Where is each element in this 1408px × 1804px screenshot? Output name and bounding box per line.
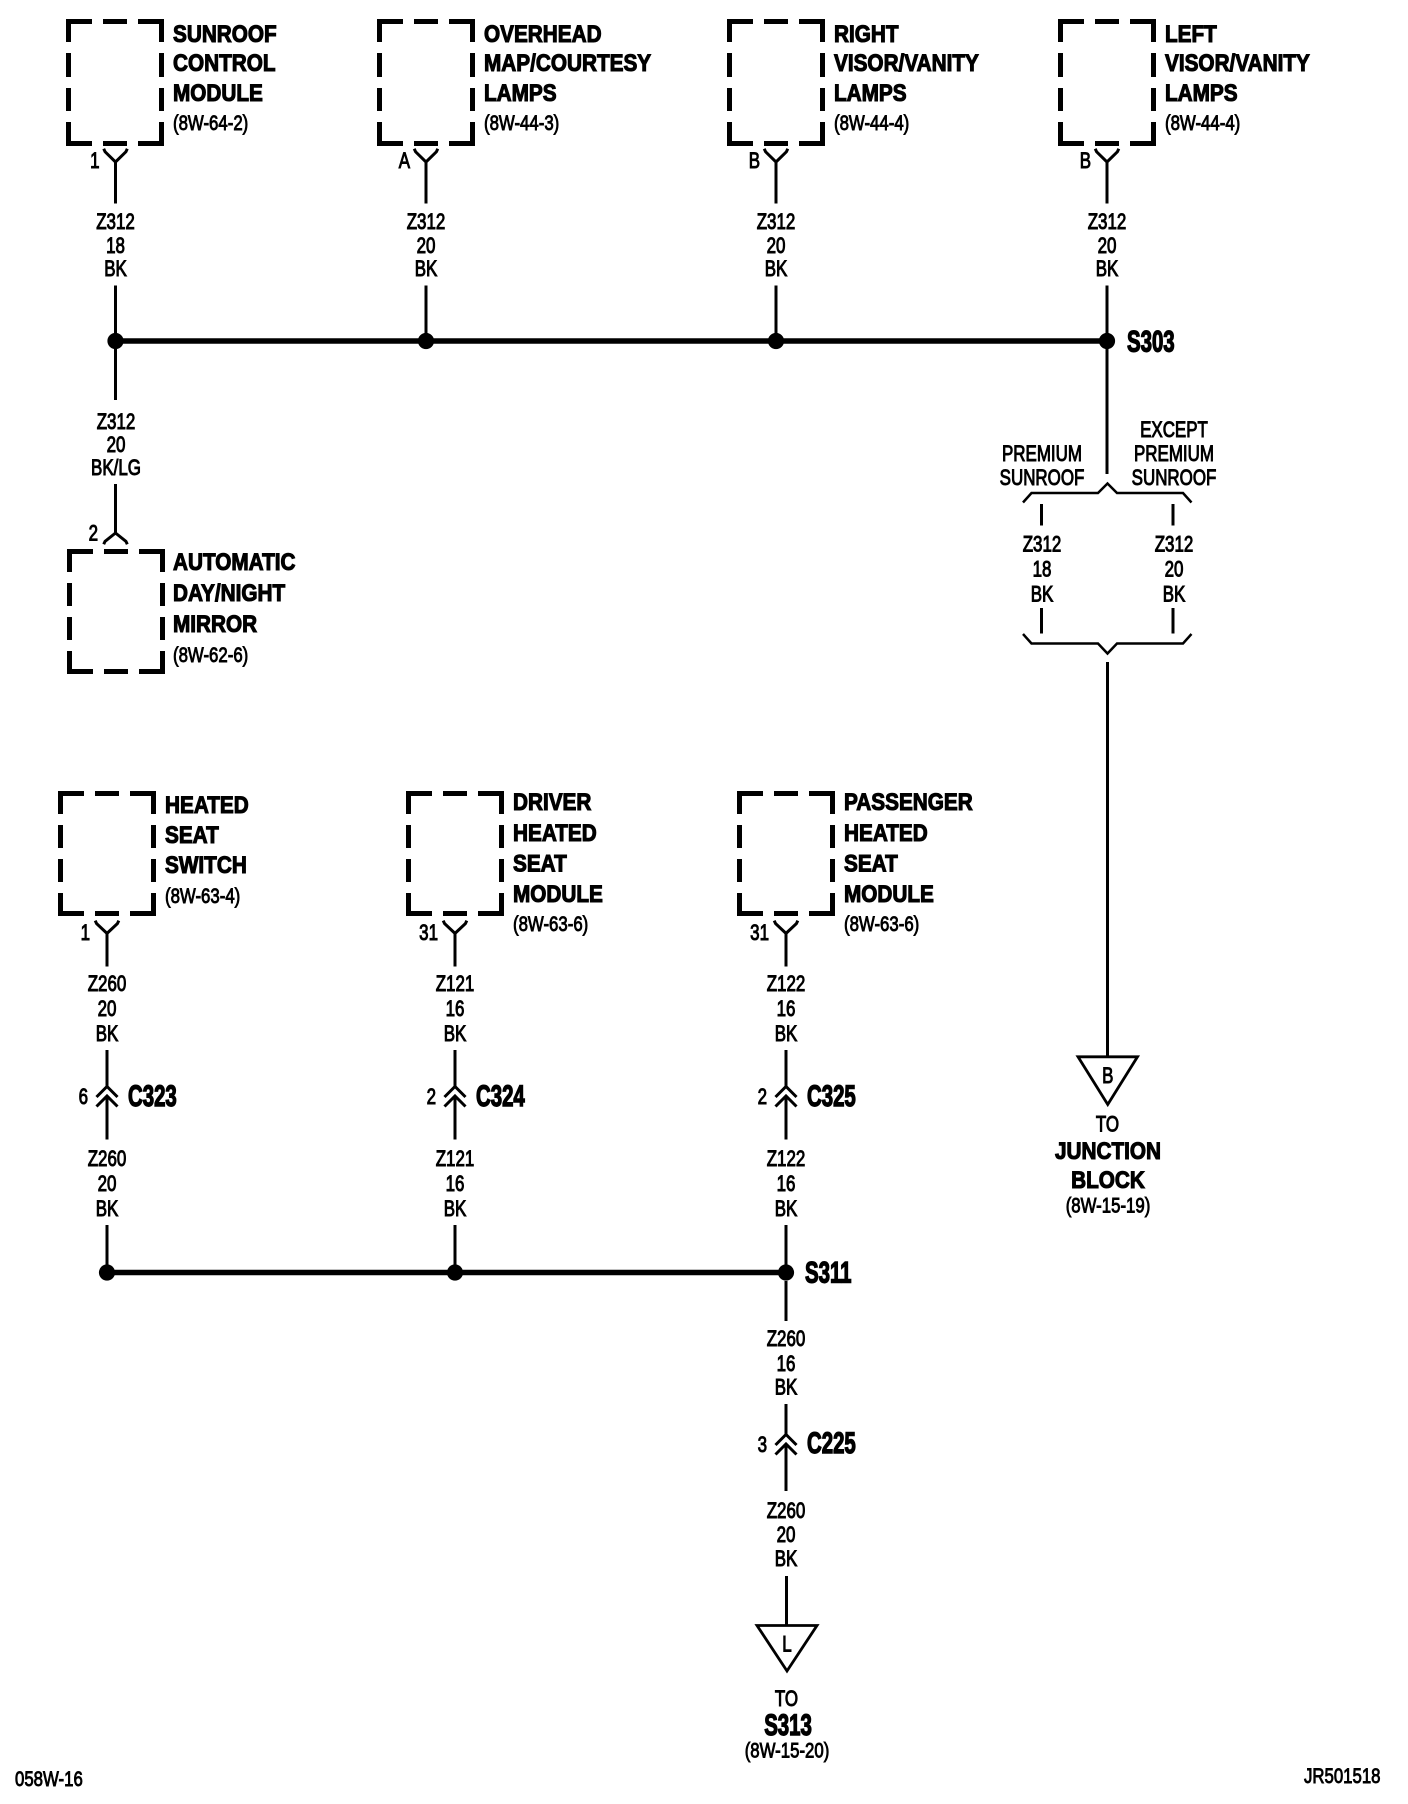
svg-text:(8W-44-3): (8W-44-3) <box>484 112 559 135</box>
junction node <box>447 1264 463 1280</box>
svg-text:BK/LG: BK/LG <box>91 456 141 481</box>
svg-text:BK: BK <box>96 1022 119 1047</box>
option label: premium sunroof <box>1000 442 1085 491</box>
wire stub <box>1172 608 1175 634</box>
wire label Z312 20 BK <box>757 210 796 282</box>
wire Z260 16 BK <box>785 1281 788 1321</box>
svg-text:MODULE: MODULE <box>173 80 263 107</box>
inline connector C325 pin 2 <box>776 1087 797 1098</box>
svg-text:HEATED: HEATED <box>165 792 249 819</box>
wire Z122 16 BK <box>785 1096 788 1140</box>
svg-text:JR501518: JR501518 <box>1304 1765 1381 1788</box>
svg-text:16: 16 <box>446 1172 465 1197</box>
wire <box>785 1576 788 1625</box>
svg-text:A: A <box>399 149 411 174</box>
svg-text:20: 20 <box>98 1172 117 1197</box>
wire label Z121 16 BK <box>436 1147 475 1222</box>
label: overhead map/courtesy lamps <box>484 21 651 136</box>
svg-text:Z312: Z312 <box>1023 532 1062 557</box>
connector fork, pin 2 <box>104 533 128 544</box>
svg-text:BK: BK <box>775 1375 798 1400</box>
svg-text:(8W-44-4): (8W-44-4) <box>1165 112 1240 135</box>
wire <box>785 1404 788 1435</box>
wire Z122 16 BK <box>785 933 788 966</box>
svg-text:BK: BK <box>775 1547 798 1572</box>
svg-text:1: 1 <box>90 149 99 174</box>
splice S311 node <box>778 1264 794 1280</box>
wire stub except premium <box>1172 504 1175 526</box>
svg-text:20: 20 <box>1165 557 1184 582</box>
svg-text:BK: BK <box>1163 582 1186 607</box>
label: driver heated seat module <box>513 789 603 937</box>
svg-text:LAMPS: LAMPS <box>484 80 557 107</box>
svg-text:Z312: Z312 <box>757 210 796 235</box>
wire: ground bus to splice S303 <box>116 338 1108 344</box>
svg-text:20: 20 <box>107 433 126 458</box>
svg-text:20: 20 <box>777 1523 796 1548</box>
svg-text:B: B <box>749 149 760 174</box>
svg-text:MODULE: MODULE <box>844 881 934 908</box>
svg-text:SUNROOF: SUNROOF <box>1132 466 1217 491</box>
svg-text:DAY/NIGHT: DAY/NIGHT <box>173 580 285 607</box>
label: automatic day/night mirror <box>173 549 296 668</box>
wire <box>454 1225 457 1265</box>
svg-text:TO: TO <box>1096 1112 1119 1137</box>
wire <box>785 1225 788 1265</box>
wire label Z260 20 BK <box>88 972 127 1047</box>
wire Z260 20 BK <box>106 933 109 966</box>
svg-text:L: L <box>782 1632 791 1657</box>
inline connector C225 pin 3 <box>776 1435 797 1446</box>
svg-text:(8W-63-4): (8W-63-4) <box>165 885 240 908</box>
off-page connector triangle B <box>1078 1057 1138 1105</box>
svg-text:BK: BK <box>765 257 788 282</box>
inline connector C323 pin 6 <box>97 1087 118 1098</box>
svg-text:2: 2 <box>427 1085 436 1110</box>
svg-text:BK: BK <box>104 257 127 282</box>
svg-text:TO: TO <box>775 1687 798 1712</box>
svg-text:PREMIUM: PREMIUM <box>1002 442 1082 467</box>
svg-text:VISOR/VANITY: VISOR/VANITY <box>834 50 979 77</box>
wire below S303 <box>1106 349 1109 474</box>
label: to S313 <box>745 1687 830 1763</box>
wire label Z122 16 BK <box>767 1147 806 1222</box>
wire <box>775 286 778 335</box>
svg-text:(8W-44-4): (8W-44-4) <box>834 112 909 135</box>
wire Z312 20 BK/LG <box>114 349 117 400</box>
wire <box>1106 286 1109 335</box>
off-page connector triangle L <box>757 1626 817 1672</box>
svg-text:16: 16 <box>777 1352 796 1377</box>
wire label Z312 20 BK <box>407 210 446 282</box>
svg-text:BK: BK <box>775 1022 798 1047</box>
component box: sunroof control module <box>66 19 164 146</box>
wire <box>454 1050 457 1087</box>
svg-text:(8W-63-6): (8W-63-6) <box>844 913 919 936</box>
component box: left visor/vanity lamps <box>1058 19 1156 146</box>
svg-text:BK: BK <box>415 257 438 282</box>
lower merge brace <box>1023 634 1192 654</box>
svg-text:BK: BK <box>96 1197 119 1222</box>
svg-text:BK: BK <box>1096 257 1119 282</box>
wire Z312 20 BK from left visor/vanity lamps <box>1106 162 1109 204</box>
svg-text:BK: BK <box>444 1197 467 1222</box>
component box: passenger heated seat module <box>737 791 835 916</box>
label: right visor/vanity lamps <box>834 21 979 136</box>
wire label Z260 20 BK <box>767 1499 806 1572</box>
wire Z260 20 BK <box>785 1444 788 1491</box>
svg-text:20: 20 <box>767 234 786 259</box>
wire Z260 20 BK <box>106 1096 109 1140</box>
svg-text:18: 18 <box>1033 557 1052 582</box>
svg-text:6: 6 <box>79 1085 88 1110</box>
svg-text:LAMPS: LAMPS <box>1165 80 1238 107</box>
wire label Z121 16 BK <box>436 972 475 1047</box>
wire <box>106 1225 109 1265</box>
svg-text:16: 16 <box>446 997 465 1022</box>
svg-text:BLOCK: BLOCK <box>1071 1167 1145 1194</box>
junction node <box>768 333 784 349</box>
svg-text:B: B <box>1080 149 1091 174</box>
long wire to junction block <box>1106 662 1109 1056</box>
wire label Z260 20 BK <box>88 1147 127 1222</box>
wire label Z260 16 BK <box>767 1327 806 1400</box>
label: left visor/vanity lamps <box>1165 21 1310 136</box>
wire Z312 20 BK from overhead map/courtesy lamps <box>425 162 428 204</box>
wire label Z312 20 BK/LG <box>91 410 141 481</box>
svg-text:DRIVER: DRIVER <box>513 789 591 816</box>
option label: except premium sunroof <box>1132 418 1217 491</box>
connector fork, pin B <box>1095 149 1119 162</box>
svg-text:LAMPS: LAMPS <box>834 80 907 107</box>
wire Z312 20 BK from right visor/vanity lamps <box>775 162 778 204</box>
splice S303 node <box>1099 333 1115 349</box>
svg-text:Z312: Z312 <box>97 410 136 435</box>
svg-text:PREMIUM: PREMIUM <box>1134 442 1214 467</box>
svg-text:HEATED: HEATED <box>513 820 597 847</box>
svg-text:(8W-62-6): (8W-62-6) <box>173 644 248 667</box>
svg-text:SUNROOF: SUNROOF <box>173 21 277 48</box>
wire <box>785 1050 788 1087</box>
svg-text:S313: S313 <box>764 1709 812 1742</box>
svg-text:(8W-64-2): (8W-64-2) <box>173 112 248 135</box>
wire: ground bus to splice S311 <box>107 1270 786 1276</box>
svg-text:20: 20 <box>98 997 117 1022</box>
svg-text:1: 1 <box>81 921 90 946</box>
svg-text:31: 31 <box>419 921 438 946</box>
wire label Z312 20 BK <box>1088 210 1127 282</box>
component box: heated seat switch <box>58 791 156 916</box>
connector fork, pin A <box>414 149 438 162</box>
wire label Z312 18 BK <box>96 210 135 282</box>
svg-text:SUNROOF: SUNROOF <box>1000 466 1085 491</box>
svg-text:18: 18 <box>106 234 125 259</box>
svg-text:Z121: Z121 <box>436 1147 475 1172</box>
svg-text:(8W-15-20): (8W-15-20) <box>745 1740 830 1763</box>
connector fork, pin B <box>764 149 788 162</box>
label: to junction block <box>1055 1112 1161 1218</box>
junction node <box>418 333 434 349</box>
svg-text:MIRROR: MIRROR <box>173 611 257 638</box>
svg-text:S311: S311 <box>805 1257 851 1290</box>
svg-text:S303: S303 <box>1127 326 1175 359</box>
component box: automatic day/night mirror <box>67 549 165 674</box>
svg-text:058W-16: 058W-16 <box>15 1768 83 1791</box>
svg-text:Z260: Z260 <box>767 1499 806 1524</box>
component box: overhead map/courtesy lamps <box>377 19 475 146</box>
svg-text:CONTROL: CONTROL <box>173 50 276 77</box>
svg-text:MAP/COURTESY: MAP/COURTESY <box>484 50 651 77</box>
svg-text:BK: BK <box>1031 582 1054 607</box>
component box: driver heated seat module <box>406 791 504 916</box>
label: passenger heated seat module <box>844 789 973 937</box>
wire stub <box>1040 608 1043 634</box>
svg-text:OVERHEAD: OVERHEAD <box>484 21 602 48</box>
wire <box>114 286 117 335</box>
svg-text:LEFT: LEFT <box>1165 21 1217 48</box>
svg-text:MODULE: MODULE <box>513 881 603 908</box>
svg-text:SWITCH: SWITCH <box>165 852 247 879</box>
svg-text:C325: C325 <box>807 1080 856 1113</box>
svg-text:HEATED: HEATED <box>844 820 928 847</box>
wire Z121 16 BK <box>454 1096 457 1140</box>
svg-text:2: 2 <box>89 521 98 546</box>
svg-text:SEAT: SEAT <box>165 822 219 849</box>
svg-text:31: 31 <box>750 921 769 946</box>
wire Z121 16 BK <box>454 933 457 966</box>
svg-text:BK: BK <box>444 1022 467 1047</box>
svg-text:RIGHT: RIGHT <box>834 21 899 48</box>
svg-text:C323: C323 <box>128 1080 177 1113</box>
svg-text:EXCEPT: EXCEPT <box>1140 418 1208 443</box>
connector fork, pin 31 <box>774 921 798 934</box>
svg-text:PASSENGER: PASSENGER <box>844 789 973 816</box>
svg-text:JUNCTION: JUNCTION <box>1055 1138 1161 1165</box>
svg-text:Z260: Z260 <box>88 1147 127 1172</box>
wire label Z312 18 BK (premium) <box>1023 532 1062 607</box>
inline connector C324 pin 2 <box>445 1087 466 1098</box>
junction node <box>107 333 123 349</box>
svg-text:C225: C225 <box>807 1427 856 1460</box>
svg-text:Z122: Z122 <box>767 972 806 997</box>
svg-text:Z312: Z312 <box>1088 210 1127 235</box>
svg-text:Z260: Z260 <box>767 1327 806 1352</box>
label: heated seat switch <box>165 792 249 909</box>
svg-text:C324: C324 <box>476 1080 525 1113</box>
svg-text:SEAT: SEAT <box>513 850 567 877</box>
svg-text:AUTOMATIC: AUTOMATIC <box>173 549 296 576</box>
wire stub premium <box>1040 504 1043 526</box>
junction node <box>99 1264 115 1280</box>
upper split brace <box>1023 484 1192 503</box>
svg-text:VISOR/VANITY: VISOR/VANITY <box>1165 50 1310 77</box>
connector fork, pin 31 <box>443 921 467 934</box>
svg-text:Z121: Z121 <box>436 972 475 997</box>
svg-text:SEAT: SEAT <box>844 850 898 877</box>
connector fork, pin 1 <box>95 921 119 934</box>
svg-text:16: 16 <box>777 997 796 1022</box>
component box: right visor/vanity lamps <box>727 19 825 146</box>
label: sunroof control module <box>173 21 277 136</box>
svg-text:2: 2 <box>758 1085 767 1110</box>
wire Z312 18 BK from sunroof control module <box>114 162 117 204</box>
wire label Z312 20 BK (except premium) <box>1155 532 1194 607</box>
svg-text:B: B <box>1102 1064 1113 1089</box>
svg-text:Z312: Z312 <box>96 210 135 235</box>
svg-text:Z312: Z312 <box>1155 532 1194 557</box>
svg-text:(8W-63-6): (8W-63-6) <box>513 913 588 936</box>
svg-text:Z312: Z312 <box>407 210 446 235</box>
wire <box>114 484 117 533</box>
wire <box>106 1050 109 1087</box>
svg-text:Z122: Z122 <box>767 1147 806 1172</box>
svg-text:(8W-15-19): (8W-15-19) <box>1066 1195 1151 1218</box>
svg-text:16: 16 <box>777 1172 796 1197</box>
connector fork, pin 1 <box>104 149 128 162</box>
svg-text:BK: BK <box>775 1197 798 1222</box>
svg-text:20: 20 <box>1098 234 1117 259</box>
svg-text:Z260: Z260 <box>88 972 127 997</box>
wire label Z122 16 BK <box>767 972 806 1047</box>
svg-text:3: 3 <box>758 1433 767 1458</box>
svg-text:20: 20 <box>417 234 436 259</box>
wire <box>425 286 428 335</box>
